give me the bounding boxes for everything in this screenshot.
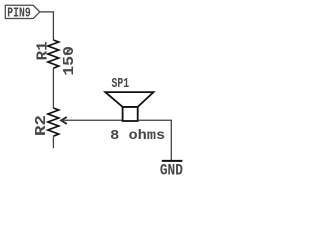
speaker SP1 body (rectangle) xyxy=(123,107,138,121)
svg-text:PIN9: PIN9 xyxy=(7,7,30,22)
svg-text:8 ohms: 8 ohms xyxy=(110,128,165,144)
svg-text:R1: R1 xyxy=(33,41,51,60)
svg-text:R2: R2 xyxy=(32,115,50,136)
wire wiper to speaker left pin xyxy=(61,119,123,121)
R2 open stub wire xyxy=(52,136,54,148)
slash of zero in 150 value xyxy=(65,48,72,55)
svg-text:SP1: SP1 xyxy=(112,76,130,92)
resistor R1 xyxy=(48,40,59,68)
net label PIN9 flag xyxy=(5,5,40,18)
wiper arrow into R2 xyxy=(61,117,67,124)
svg-text:GND: GND xyxy=(160,162,183,180)
wire speaker right pin to ground xyxy=(138,120,172,160)
wire from PIN9 tag to R1 xyxy=(40,12,54,40)
wire R1 bottom to R2 top xyxy=(52,68,54,108)
ground symbol bar xyxy=(162,160,183,162)
speaker SP1 horn (trapezoid) xyxy=(105,92,153,107)
resistor R2 xyxy=(48,108,59,136)
